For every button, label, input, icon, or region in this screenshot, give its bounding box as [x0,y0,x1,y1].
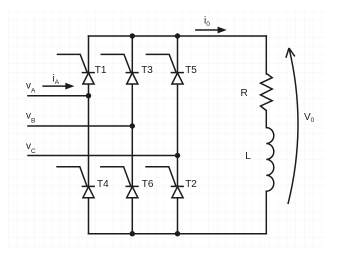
wire below inductor [265,191,267,234]
svg-text:T4: T4 [97,179,109,190]
svg-text:R: R [241,88,248,99]
node bottom rail / leg B junction [130,231,135,236]
thyristor T3 [101,54,139,84]
svg-text:T2: T2 [185,179,197,190]
wire column C (T5/T2 leg) [177,36,179,234]
node top rail / leg C junction [175,33,180,38]
wire phase vA [28,95,89,97]
svg-text:vC: vC [26,141,36,155]
arrow i0 [195,27,227,34]
wire right load branch top [265,36,267,74]
thyristor T2 [145,167,184,198]
svg-text:T5: T5 [185,65,197,76]
thyristor T5 [146,54,184,84]
node phase C junction [175,153,180,158]
inductor L [266,128,274,192]
svg-text:vA: vA [26,80,36,94]
thyristor T6 [100,167,139,198]
node bottom rail / leg C junction [175,231,180,236]
svg-text:T1: T1 [95,65,107,76]
svg-text:i0: i0 [204,15,210,28]
wire column A (T1/T4 leg) [88,36,90,234]
arrow iA [42,83,74,90]
wire bottom rail [89,233,267,235]
svg-text:T6: T6 [142,179,154,190]
resistor R [261,73,273,110]
wire phase vB [28,125,132,127]
wire column B (T3/T6 leg) [131,36,133,234]
wire between resistor and inductor [265,111,267,128]
svg-text:V0: V0 [304,112,315,124]
arrow V0 (curved) [286,48,298,204]
thyristor T4 [56,167,95,198]
wire top rail [89,35,267,37]
thyristor T1 [57,54,95,84]
svg-text:T3: T3 [141,65,153,76]
svg-text:L: L [245,151,251,162]
svg-text:vB: vB [26,111,35,125]
node top rail / leg B junction [130,33,135,38]
node phase A junction [86,93,91,98]
node phase B junction [130,123,135,128]
wire phase vC [28,155,178,157]
svg-text:iA: iA [53,74,60,86]
